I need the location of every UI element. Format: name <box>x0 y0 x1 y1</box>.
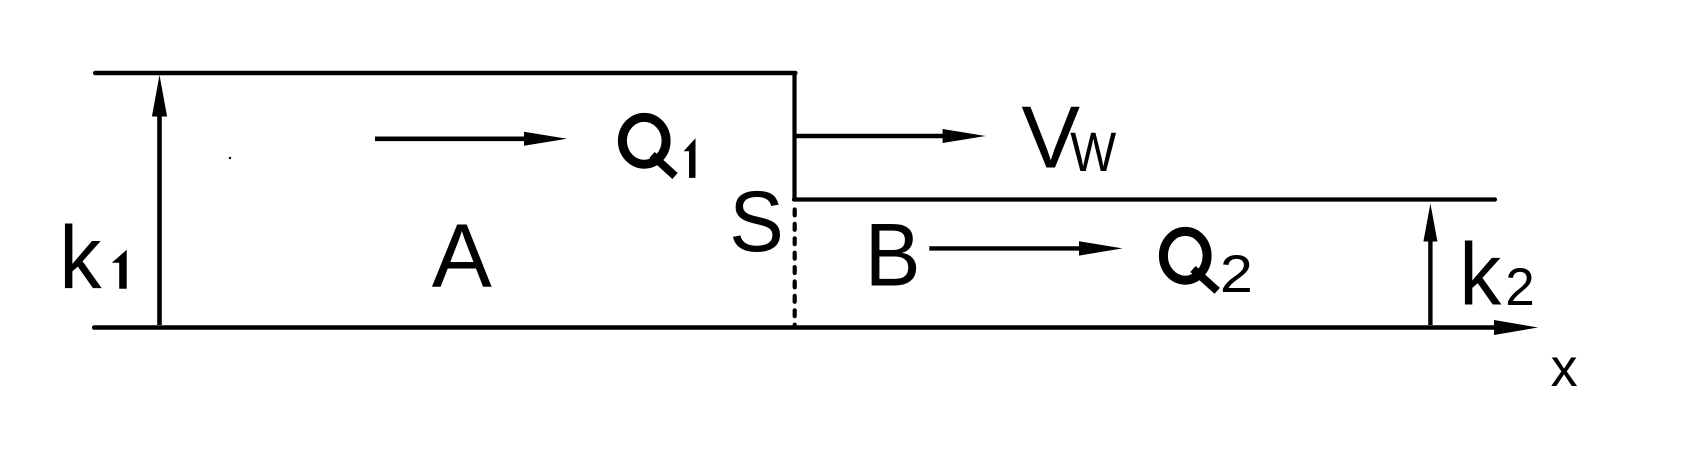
svg-text:x: x <box>1551 338 1578 398</box>
svg-text:A: A <box>432 207 492 307</box>
svg-text:B: B <box>865 206 921 305</box>
svg-text:2: 2 <box>1220 244 1253 303</box>
svg-text:W: W <box>1070 121 1116 184</box>
svg-text:k: k <box>59 208 102 307</box>
svg-text:2: 2 <box>1505 258 1534 317</box>
svg-text:S: S <box>729 173 783 269</box>
svg-text:k: k <box>1459 226 1502 324</box>
